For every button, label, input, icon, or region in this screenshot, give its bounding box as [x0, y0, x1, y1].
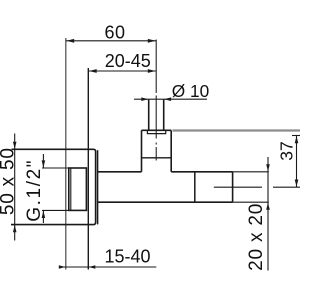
dimension 20x20: [267, 157, 269, 271]
dimension 37: [292, 135, 300, 137]
dimension 20-45: [88, 70, 156, 72]
svg-text:37: 37: [277, 141, 297, 160]
bonnet joint line: [142, 157, 172, 159]
nipple thread chamfer line: [70, 168, 72, 210]
dimension Ø10: [134, 98, 149, 100]
svg-text:50 x 50: 50 x 50: [0, 147, 19, 215]
svg-text:G.1/2": G.1/2": [24, 159, 45, 222]
handle center line: [214, 186, 262, 188]
handle joint line: [194, 172, 196, 202]
wall line / 60+15-40 extension: [65, 38, 67, 270]
valve body rear edge behind collar: [97, 151, 99, 224]
G1/2 extension ticks: [42, 167, 69, 169]
svg-text:15-40: 15-40: [104, 246, 150, 266]
body right edge: [232, 172, 234, 202]
valve body outline: [98, 171, 142, 173]
svg-text:60: 60: [104, 23, 125, 43]
supply reference line (gray): [173, 129, 301, 131]
G1/2 inlet nipple square: [69, 168, 87, 210]
dimension 15-40: [60, 266, 156, 268]
svg-text:Ø 10: Ø 10: [172, 81, 209, 101]
pipe centerline / dim extension: [155, 40, 157, 94]
outlet pipe Ø10: [148, 99, 150, 130]
svg-text:20-45: 20-45: [105, 51, 151, 71]
dimension G.1/2: [42, 154, 44, 168]
plate back line / 20-45+15-40 extension: [87, 68, 89, 270]
svg-text:20 x 20: 20 x 20: [246, 203, 267, 271]
dimension 60: [66, 40, 156, 42]
outlet socket recess: [147, 130, 165, 133]
neck (bonnet) outline: [141, 130, 143, 172]
dimension 50x50: [14, 134, 16, 241]
wall plate 50x50 outline with collar: [11, 149, 96, 224]
